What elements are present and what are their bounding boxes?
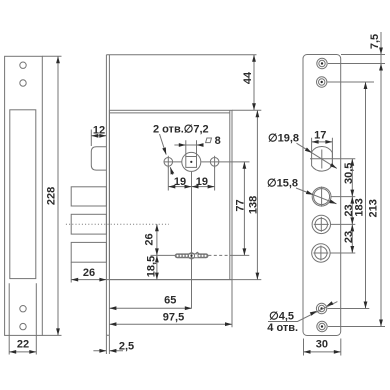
dimension 30 [304, 339, 341, 356]
svg-text:77: 77 [234, 199, 246, 211]
bolt 3 [71, 242, 106, 262]
svg-text:228: 228 [46, 187, 58, 205]
svg-text:30,5: 30,5 [343, 163, 355, 184]
hole dia 15.8 [312, 187, 331, 207]
left plate screw hole top 1 [20, 62, 26, 68]
svg-text:19: 19 [174, 176, 186, 188]
hole C centerline to chain [331, 223, 356, 225]
svg-text:23: 23 [343, 231, 355, 243]
body bottom edge with 26 bolt dimension line [71, 262, 232, 282]
lock faceplate edge view [106, 55, 109, 336]
back plate screw hole F [317, 321, 327, 331]
dimension 97.5 [109, 280, 232, 328]
cylinder bump on faceplate [91, 147, 106, 170]
dimension 183 [353, 82, 367, 309]
dimension 44 [242, 55, 256, 111]
lock body inner top edge [109, 112, 229, 114]
screw hole E centerline extension [328, 308, 370, 310]
back plate screw hole B [317, 77, 327, 87]
dimension 19 19 [168, 167, 214, 191]
left strike plate outline [5, 56, 43, 335]
bolt axis dotted line [66, 223, 169, 225]
keyhole [175, 252, 208, 259]
svg-text:183: 183 [353, 198, 365, 216]
dimension 65 [109, 295, 191, 311]
label 2 holes dia 7.2 with leader [153, 124, 209, 175]
svg-text:65: 65 [164, 295, 176, 307]
svg-text:12: 12 [93, 125, 105, 137]
dimension 12 [91, 125, 106, 147]
dimension 228 [42, 56, 61, 335]
svg-text:97,5: 97,5 [163, 311, 184, 323]
back plate top edge extension [341, 54, 385, 56]
screw hole F centerline extension [328, 326, 385, 328]
cylinder hole dia 19.8 with flats [312, 147, 333, 172]
svg-text:4 отв.: 4 отв. [267, 322, 298, 334]
left plate lower face edge lines [9, 283, 36, 354]
left plate screw hole top 2 [20, 80, 26, 86]
hole 15.8 centerline to chain [331, 196, 355, 198]
vertical centerline through square hole and keyhole [191, 172, 193, 309]
left plate screw hole bottom 2 [20, 323, 26, 329]
chain dimension line 30.5 23 23 [343, 159, 355, 253]
svg-text:30: 30 [316, 339, 328, 351]
dimension 2.5 [93, 335, 134, 354]
dimension 8 square [174, 135, 220, 157]
svg-text:17: 17 [314, 129, 326, 141]
faceplate top line / extension for 44 [106, 54, 256, 56]
back plate outline [303, 55, 341, 336]
svg-text:22: 22 [17, 339, 29, 351]
screw hole B centerline extension [328, 81, 375, 83]
lock body inner right edge [229, 110, 231, 279]
svg-text:138: 138 [247, 196, 259, 214]
svg-text:26: 26 [83, 267, 95, 279]
svg-text:8: 8 [215, 135, 221, 147]
svg-text:2 отв.∅7,2: 2 отв.∅7,2 [153, 124, 209, 136]
bolt 1 [71, 187, 106, 206]
dimension 7.5 and 213 shared line [368, 32, 383, 327]
left plate screw hole bottom 1 [20, 306, 26, 312]
svg-text:∅19,8: ∅19,8 [268, 133, 299, 145]
keyhole centerline dashed right [208, 254, 229, 256]
square spindle hole 8x8 [182, 152, 201, 171]
left plate cutout window [10, 110, 36, 279]
svg-text:213: 213 [368, 199, 380, 217]
svg-text:19: 19 [196, 176, 208, 188]
label dia 15.8 with leader [267, 178, 337, 206]
dimension 17 [312, 129, 333, 164]
keyhole centerline extension to 77 [230, 254, 250, 256]
dimension 138 [232, 110, 261, 279]
knob hole D [312, 244, 330, 262]
hole 7.2 right [210, 156, 219, 168]
hole D centerline to chain [330, 252, 355, 254]
dimension 26 and 18.5 vertical [144, 224, 159, 279]
back plate screw hole A [317, 58, 327, 68]
cylinder hole centerline to chain [310, 158, 355, 160]
back plate screw hole E [316, 303, 326, 313]
svg-text:∅15,8: ∅15,8 [267, 178, 298, 190]
horizontal centerline through holes [164, 161, 250, 163]
keyhole centerline left [151, 254, 176, 256]
svg-text:18,5: 18,5 [146, 256, 158, 277]
svg-text:∅4,5: ∅4,5 [269, 311, 294, 323]
lock body outline [109, 110, 232, 279]
svg-text:2,5: 2,5 [119, 341, 134, 353]
dimension 22 [9, 339, 36, 354]
dimension 77 [234, 162, 246, 256]
label dia 4.5 4 holes with leader [267, 301, 337, 334]
knob hole C [312, 215, 330, 233]
svg-text:44: 44 [242, 71, 254, 84]
hole 7.2 left [164, 156, 173, 168]
label dia 19.8 with leader [268, 133, 338, 171]
screw hole A centerline extension [328, 63, 385, 65]
bolt 2 [71, 214, 106, 234]
svg-text:7,5: 7,5 [369, 34, 381, 49]
svg-text:26: 26 [144, 233, 156, 245]
